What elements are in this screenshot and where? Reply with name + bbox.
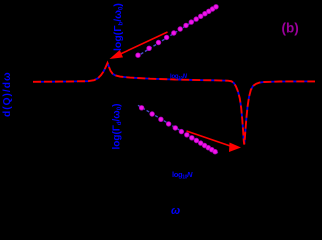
svg-text:d(Q)/dω: d(Q)/dω: [2, 71, 13, 117]
top inset arrow: [120, 32, 167, 54]
main spectrum curve (blue dashed under red dashed): [33, 63, 315, 145]
bottom inset fit line: [138, 105, 219, 153]
svg-text:(b): (b): [282, 21, 299, 36]
top inset fit line: [137, 6, 219, 57]
svg-text:ω: ω: [171, 205, 180, 216]
bottom inset arrow: [187, 131, 232, 146]
bottom inset data points: [139, 106, 144, 111]
top inset data points: [136, 53, 141, 58]
svg-text:log(Γb/ω0): log(Γb/ω0): [112, 3, 125, 51]
svg-text:log10N: log10N: [170, 74, 188, 80]
svg-text:log(Γd/ω0): log(Γd/ω0): [112, 104, 124, 150]
